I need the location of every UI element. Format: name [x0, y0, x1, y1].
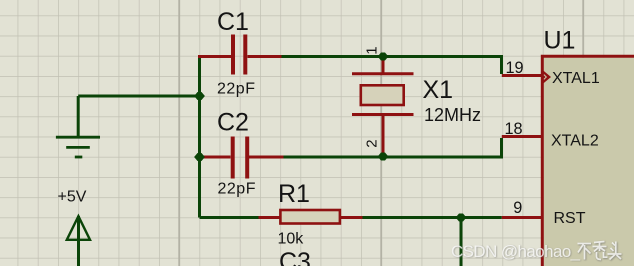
svg-text:2: 2 — [364, 139, 381, 147]
svg-text:XTAL1: XTAL1 — [552, 70, 600, 87]
svg-text:22pF: 22pF — [217, 81, 255, 98]
svg-text:RST: RST — [554, 210, 586, 227]
svg-text:CSDN @haohao_: CSDN @haohao_ — [451, 242, 581, 261]
svg-text:XTAL2: XTAL2 — [551, 133, 599, 150]
svg-text:C2: C2 — [217, 109, 249, 137]
svg-text:12MHz: 12MHz — [424, 105, 481, 125]
svg-text:R1: R1 — [278, 180, 310, 208]
svg-text:C3: C3 — [279, 248, 311, 266]
svg-text:U1: U1 — [544, 27, 576, 55]
svg-text:18: 18 — [505, 120, 523, 138]
svg-text:9: 9 — [513, 199, 522, 217]
svg-text:+5V: +5V — [58, 189, 87, 206]
svg-text:19: 19 — [506, 59, 524, 77]
svg-text:1: 1 — [363, 46, 380, 54]
svg-text:X1: X1 — [423, 76, 454, 104]
svg-text:22pF: 22pF — [218, 181, 256, 198]
svg-text:C1: C1 — [217, 8, 249, 36]
svg-text:10k: 10k — [278, 231, 305, 248]
